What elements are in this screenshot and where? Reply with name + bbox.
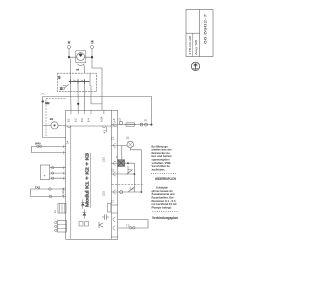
svg-text:Pumpe belegt.: Pumpe belegt. xyxy=(152,206,172,209)
svg-text:178-04-98: 178-04-98 xyxy=(188,35,192,55)
underline Modul label xyxy=(89,153,91,208)
transistor glyph xyxy=(99,222,103,228)
plug SI b xyxy=(145,123,148,126)
wire L1 drop xyxy=(91,49,93,68)
terminal Mp xyxy=(41,94,49,105)
switch b1 xyxy=(59,85,69,91)
diode D1 glyph xyxy=(81,200,85,209)
plug X3.3 xyxy=(51,177,53,179)
wire K drop 2 xyxy=(77,82,79,111)
svg-text:+: + xyxy=(44,174,46,178)
motor M2 enclosure xyxy=(76,51,86,63)
left edge entry hooks xyxy=(62,145,65,198)
wire K drop 1 xyxy=(70,59,72,82)
dashed boundary row xyxy=(112,183,143,185)
wire top bus xyxy=(43,96,152,98)
legend paragraph 2 xyxy=(152,187,177,210)
terminal L1 xyxy=(90,40,94,49)
jumper loop right xyxy=(118,220,148,230)
contact bar K1 xyxy=(69,81,89,83)
svg-text:2: 2 xyxy=(50,118,54,120)
svg-text:Modul K1 + K2 + K3: Modul K1 + K2 + K3 xyxy=(85,152,90,207)
contact tick 3 xyxy=(84,80,86,84)
svg-text:L1: L1 xyxy=(90,40,94,44)
terminal hook row5 xyxy=(114,190,116,194)
wire ctrl line1 xyxy=(50,167,66,169)
wire K drop 4b xyxy=(91,86,102,104)
terminal N xyxy=(67,41,71,48)
terminal hook row3 xyxy=(114,161,116,165)
diode D2 glyph xyxy=(83,210,87,219)
terminal bump 6.5 xyxy=(102,126,105,128)
svg-text:6.4: 6.4 xyxy=(87,118,91,122)
switch S4 xyxy=(127,170,133,175)
contact tick 1 xyxy=(70,80,72,84)
wire motor feed xyxy=(69,56,77,58)
svg-text:0.4-0.3: 0.4-0.3 xyxy=(62,188,65,196)
node row3 xyxy=(127,162,129,164)
jumper loop TAS xyxy=(31,185,66,198)
terminal labels right column xyxy=(112,136,115,203)
right row2 lamp h12 xyxy=(118,145,127,147)
svg-text:3,15: 3,15 xyxy=(103,157,106,162)
stub 4.1 xyxy=(103,127,107,134)
svg-text:Verbindungsplan: Verbindungsplan xyxy=(152,216,178,220)
wire N drop xyxy=(68,49,70,58)
node N-junction xyxy=(68,56,70,58)
svg-text:12: 12 xyxy=(126,136,130,140)
svg-text:b1: b1 xyxy=(59,86,63,90)
wire L1 jog xyxy=(92,68,102,110)
jumper loop W40 xyxy=(32,141,66,152)
node row5 xyxy=(141,191,143,193)
labels 6.1-6.5 xyxy=(67,116,104,122)
motor M2 xyxy=(77,53,85,61)
svg-text:SI: SI xyxy=(144,119,148,122)
wire left bus drop xyxy=(43,97,66,138)
dotted rule 2 xyxy=(153,211,180,213)
wire right drop xyxy=(140,150,142,192)
terminal hook a xyxy=(113,218,115,222)
wire lamp down xyxy=(130,148,141,150)
right row5 switch S2 xyxy=(118,191,142,193)
plug X3.1 xyxy=(51,167,53,169)
plug X3.2 xyxy=(51,172,53,174)
wire valve right xyxy=(58,124,66,126)
sensor F2 dashed enclosure xyxy=(46,99,65,137)
svg-text:6.1: 6.1 xyxy=(67,118,71,122)
wire K drop 4 xyxy=(89,73,91,86)
node row1 right xyxy=(150,124,152,126)
capacitor glyph xyxy=(102,215,109,220)
module box Modul K1+K2+K3 xyxy=(66,110,118,239)
right row4 switch xyxy=(118,173,135,175)
terminal hook row1 xyxy=(114,123,116,127)
svg-text:WIDERRUFLICH: WIDERRUFLICH xyxy=(155,177,176,181)
wire motor to relay box xyxy=(83,65,86,73)
svg-text:66.6902-7: 66.6902-7 xyxy=(204,14,208,44)
node bus junction xyxy=(77,103,79,105)
legend paragraph 1 xyxy=(152,145,173,171)
coil X box xyxy=(116,156,125,167)
wire ctrl line3 xyxy=(50,177,66,179)
wire K drop 1b xyxy=(70,82,73,111)
dotted rule 1 xyxy=(151,173,177,175)
wire valve left xyxy=(43,124,51,126)
fuse F1 xyxy=(126,123,135,126)
wire motor out xyxy=(85,56,93,58)
svg-text:achten.: achten. xyxy=(152,168,167,171)
svg-text:6.3: 6.3 xyxy=(80,118,84,122)
plug row1 xyxy=(119,121,122,124)
svg-text:W40: W40 xyxy=(35,141,41,145)
connector X10 xyxy=(54,204,66,214)
svg-text:TAS: TAS xyxy=(35,185,40,189)
switch S2 xyxy=(128,188,134,193)
wire right bus drop xyxy=(150,97,152,125)
svg-text:6.2: 6.2 xyxy=(74,118,78,122)
terminal hook row4 xyxy=(114,172,116,176)
module right terminal column xyxy=(110,110,112,239)
svg-text:4.1: 4.1 xyxy=(103,129,107,133)
terminal hook row2 xyxy=(114,144,116,148)
svg-text:S.2: S.2 xyxy=(130,187,135,191)
module right terminal ticks xyxy=(111,125,117,237)
node row4 xyxy=(134,173,136,175)
right row1 fuse SI xyxy=(118,124,152,126)
plug SI a xyxy=(140,123,143,126)
module top strip divider xyxy=(66,125,118,127)
terminal hook b xyxy=(113,226,115,230)
terminal bump 6.1 xyxy=(67,126,70,128)
resistor R7 in right column xyxy=(107,204,111,213)
svg-text:Aug ’98: Aug ’98 xyxy=(194,39,198,55)
gas valve Y2 xyxy=(50,118,59,129)
wire lamp to coil xyxy=(121,146,123,160)
wire ctrl line2 xyxy=(50,172,66,174)
node L1-junction xyxy=(91,56,93,58)
module top terminals 6.x xyxy=(71,110,104,114)
contact cross mark xyxy=(74,80,83,82)
right row3 coil xyxy=(118,162,135,164)
control unit box xyxy=(41,165,50,180)
module left terminal column xyxy=(70,126,72,239)
capacitor arc under motor xyxy=(77,64,84,66)
svg-text:N: N xyxy=(67,41,71,43)
plug row5 xyxy=(120,191,123,194)
svg-text:3,15: 3,15 xyxy=(103,191,106,196)
relay contact squares 88 xyxy=(79,222,89,227)
title block xyxy=(186,10,213,57)
wire K drop 3 xyxy=(84,82,86,111)
maker logo xyxy=(191,62,199,70)
svg-text:a1: a1 xyxy=(57,75,61,79)
contact tick 2 xyxy=(77,80,79,84)
vertical bus right xyxy=(133,163,135,192)
connector X20 xyxy=(55,221,67,233)
relay K dashed enclosure xyxy=(58,73,97,92)
svg-text:0.5A: 0.5A xyxy=(99,116,103,122)
wire coil to switch row xyxy=(127,166,129,174)
lamp h12 xyxy=(126,136,134,148)
